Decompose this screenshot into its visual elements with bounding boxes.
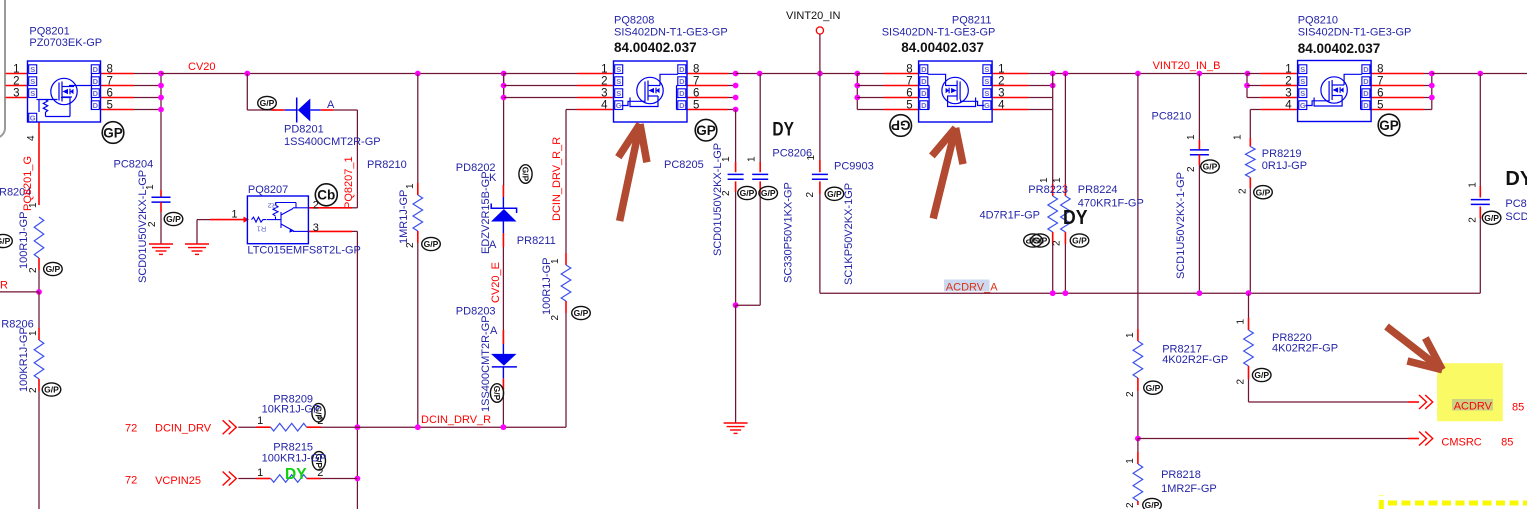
svg-text:4: 4: [26, 135, 37, 141]
svg-text:2: 2: [405, 242, 416, 248]
svg-text:D: D: [93, 89, 99, 98]
svg-text:3: 3: [13, 88, 19, 100]
svg-text:G/P: G/P: [1072, 236, 1087, 246]
svg-text:SC1KP50V2KX-1GP: SC1KP50V2KX-1GP: [843, 183, 855, 285]
svg-text:DCIN_DRV_R_R: DCIN_DRV_R_R: [551, 137, 563, 221]
svg-text:G/P: G/P: [574, 308, 589, 318]
svg-text:PC8: PC8: [1505, 198, 1526, 210]
svg-text:D: D: [93, 101, 99, 110]
svg-text:84.00402.037: 84.00402.037: [1298, 41, 1381, 56]
svg-text:84.00402.037: 84.00402.037: [901, 40, 984, 55]
svg-text:DCIN_DRV_R: DCIN_DRV_R: [421, 414, 491, 426]
svg-text:1: 1: [1039, 177, 1050, 183]
svg-text:1: 1: [257, 467, 263, 479]
svg-text:4K02R2F-GP: 4K02R2F-GP: [1162, 354, 1228, 366]
svg-text:DY: DY: [1505, 168, 1527, 190]
svg-text:0R1J-GP: 0R1J-GP: [1262, 160, 1307, 172]
svg-text:PR8218: PR8218: [1161, 469, 1201, 481]
svg-text:DY: DY: [772, 119, 794, 141]
svg-text:S: S: [1300, 65, 1305, 74]
svg-text:85: 85: [1512, 401, 1524, 413]
svg-text:2: 2: [1125, 502, 1136, 508]
svg-text:D: D: [1363, 101, 1369, 110]
svg-text:G/P: G/P: [1203, 162, 1218, 172]
svg-text:GP: GP: [696, 123, 716, 138]
svg-text:G/P: G/P: [424, 239, 439, 249]
svg-text:5: 5: [906, 100, 912, 112]
svg-text:G/P: G/P: [1025, 235, 1040, 245]
svg-text:G/P: G/P: [1484, 213, 1499, 223]
svg-text:D: D: [1363, 89, 1369, 98]
svg-text:7: 7: [906, 76, 912, 88]
svg-text:2: 2: [317, 415, 323, 427]
svg-text:S: S: [30, 77, 35, 86]
svg-text:PC8205: PC8205: [664, 159, 704, 171]
svg-text:2: 2: [805, 192, 816, 198]
svg-text:D: D: [93, 77, 99, 86]
svg-text:D: D: [679, 89, 685, 98]
svg-text:2: 2: [313, 199, 319, 211]
svg-text:G/P: G/P: [1254, 370, 1269, 380]
svg-text:4: 4: [998, 100, 1005, 112]
svg-text:SC330P50V1KX-GP: SC330P50V1KX-GP: [783, 182, 795, 283]
svg-text:1: 1: [1052, 177, 1063, 183]
svg-text:1: 1: [405, 183, 416, 189]
svg-text:PR8219: PR8219: [1262, 148, 1302, 160]
svg-text:G: G: [1300, 101, 1306, 110]
svg-text:EDZV2R15B-GP: EDZV2R15B-GP: [480, 171, 492, 254]
svg-text:8: 8: [693, 64, 699, 76]
svg-text:2: 2: [1236, 379, 1247, 385]
svg-text:S: S: [616, 65, 621, 74]
svg-text:PQ8211: PQ8211: [952, 15, 992, 27]
svg-text:1: 1: [1125, 458, 1136, 464]
svg-text:3: 3: [998, 88, 1004, 100]
svg-text:G/P: G/P: [166, 214, 181, 224]
svg-text:CV20_E: CV20_E: [490, 262, 502, 303]
svg-text:ACDRV_A: ACDRV_A: [946, 281, 998, 293]
svg-text:D: D: [921, 77, 927, 86]
svg-text:5: 5: [1377, 100, 1383, 112]
svg-text:PC8210: PC8210: [1152, 110, 1192, 122]
svg-text:R: R: [0, 280, 8, 292]
svg-text:1: 1: [601, 64, 607, 76]
svg-text:5: 5: [107, 100, 113, 112]
svg-text:GP: GP: [1379, 118, 1399, 133]
svg-text:1: 1: [28, 330, 39, 336]
svg-text:1SS400CMT2R-GP: 1SS400CMT2R-GP: [284, 136, 381, 148]
svg-text:4: 4: [601, 100, 608, 112]
svg-text:2: 2: [998, 76, 1004, 88]
svg-text:GP: GP: [103, 125, 123, 140]
svg-text:1: 1: [13, 64, 19, 76]
svg-text:G/P: G/P: [44, 385, 59, 395]
svg-text:S: S: [984, 89, 989, 98]
svg-text:1: 1: [1233, 134, 1244, 140]
svg-text:G/P: G/P: [0, 236, 11, 246]
svg-text:S: S: [616, 77, 621, 86]
svg-text:R2: R2: [268, 201, 278, 210]
svg-text:1SS400CMT2R-GP: 1SS400CMT2R-GP: [480, 315, 492, 412]
svg-text:D: D: [679, 77, 685, 86]
svg-text:PR8211: PR8211: [517, 235, 556, 247]
svg-text:PR8223: PR8223: [1028, 184, 1068, 196]
svg-text:D: D: [921, 65, 927, 74]
svg-text:G/P: G/P: [740, 188, 755, 198]
svg-text:PQ8208: PQ8208: [614, 15, 654, 27]
svg-text:72: 72: [125, 423, 137, 435]
svg-text:3: 3: [1285, 88, 1291, 100]
svg-text:2: 2: [721, 190, 732, 196]
svg-text:1: 1: [721, 156, 732, 162]
svg-text:2: 2: [147, 221, 158, 227]
svg-text:PC8204: PC8204: [114, 158, 154, 170]
svg-text:G/P: G/P: [46, 264, 61, 274]
svg-text:7: 7: [1377, 76, 1383, 88]
svg-text:2: 2: [28, 267, 39, 273]
svg-text:2: 2: [13, 76, 19, 88]
svg-text:1: 1: [257, 415, 263, 427]
svg-text:8: 8: [1377, 64, 1383, 76]
svg-text:1: 1: [550, 258, 561, 264]
svg-text:2: 2: [1125, 391, 1136, 397]
svg-text:1: 1: [1285, 64, 1291, 76]
svg-text:S: S: [30, 89, 35, 98]
svg-text:S: S: [616, 89, 621, 98]
svg-text:6: 6: [107, 88, 113, 100]
svg-text:2: 2: [1468, 217, 1479, 223]
svg-text:5: 5: [693, 100, 699, 112]
svg-text:4K02R2F-GP: 4K02R2F-GP: [1272, 342, 1338, 354]
svg-text:DCIN_DRV: DCIN_DRV: [155, 423, 212, 435]
svg-text:2: 2: [550, 315, 561, 321]
svg-text:470KR1F-GP: 470KR1F-GP: [1078, 197, 1144, 209]
svg-text:1MR1J-GP: 1MR1J-GP: [398, 190, 410, 244]
svg-text:2: 2: [1238, 188, 1249, 194]
svg-text:2: 2: [601, 76, 607, 88]
svg-text:G/P: G/P: [520, 167, 530, 182]
svg-text:S: S: [984, 65, 989, 74]
svg-text:1: 1: [28, 202, 39, 208]
svg-text:6: 6: [1377, 88, 1383, 100]
svg-text:D: D: [93, 65, 99, 74]
svg-text:DY: DY: [285, 466, 307, 483]
svg-text:DY: DY: [1063, 207, 1088, 229]
svg-text:4: 4: [1285, 100, 1292, 112]
svg-text:Cb: Cb: [317, 188, 335, 203]
svg-text:PZ0703EK-GP: PZ0703EK-GP: [29, 37, 102, 49]
svg-text:1MR2F-GP: 1MR2F-GP: [1161, 483, 1217, 495]
svg-text:84.00402.037: 84.00402.037: [614, 40, 697, 55]
svg-text:PQ8207: PQ8207: [248, 184, 288, 196]
svg-text:SIS402DN-T1-GE3-GP: SIS402DN-T1-GE3-GP: [614, 26, 728, 38]
svg-text:1: 1: [1125, 332, 1136, 338]
svg-text:72: 72: [125, 475, 137, 487]
svg-text:VCPIN25: VCPIN25: [155, 475, 201, 487]
svg-text:1: 1: [145, 184, 156, 190]
svg-text:1: 1: [231, 209, 237, 221]
svg-text:7: 7: [693, 76, 699, 88]
svg-text:S: S: [984, 77, 989, 86]
svg-text:VINT20_IN: VINT20_IN: [786, 10, 840, 22]
svg-text:D: D: [679, 65, 685, 74]
svg-text:SCD: SCD: [1505, 211, 1527, 223]
svg-text:S: S: [30, 65, 35, 74]
svg-text:6: 6: [906, 88, 912, 100]
svg-text:1: 1: [998, 64, 1004, 76]
svg-text:2: 2: [1285, 76, 1291, 88]
svg-text:2: 2: [1186, 166, 1197, 172]
svg-text:10KR1J-GP: 10KR1J-GP: [262, 404, 321, 416]
svg-text:8: 8: [906, 64, 912, 76]
svg-text:100R1J-GP: 100R1J-GP: [18, 212, 30, 269]
svg-text:LTC015EMFS8T2L-GP: LTC015EMFS8T2L-GP: [247, 245, 361, 257]
svg-text:PQ8210: PQ8210: [1298, 15, 1338, 27]
svg-text:GP: GP: [891, 118, 911, 133]
svg-text:VINT20_IN_B: VINT20_IN_B: [1153, 60, 1221, 72]
svg-text:G/P: G/P: [1256, 187, 1271, 197]
svg-text:G: G: [30, 113, 36, 122]
svg-text:D: D: [1363, 65, 1369, 74]
svg-text:PC9903: PC9903: [834, 161, 874, 173]
svg-text:4D7R1F-GP: 4D7R1F-GP: [980, 210, 1041, 222]
svg-text:PR8224: PR8224: [1078, 184, 1118, 196]
svg-text:SIS402DN-T1-GE3-GP: SIS402DN-T1-GE3-GP: [882, 26, 996, 38]
svg-text:R1: R1: [257, 224, 267, 233]
svg-text:1: 1: [747, 156, 758, 162]
svg-text:1: 1: [1468, 182, 1479, 188]
svg-text:ACDRV: ACDRV: [1454, 401, 1493, 413]
svg-text:85: 85: [1501, 437, 1513, 449]
svg-text:PD8201: PD8201: [284, 123, 324, 135]
svg-text:3: 3: [601, 88, 607, 100]
svg-text:D: D: [921, 89, 927, 98]
svg-text:G: G: [984, 101, 990, 110]
svg-text:SIS402DN-T1-GE3-GP: SIS402DN-T1-GE3-GP: [1298, 26, 1412, 38]
svg-text:G/P: G/P: [492, 386, 502, 401]
svg-text:1: 1: [806, 155, 817, 161]
svg-text:G/P: G/P: [1146, 383, 1161, 393]
svg-text:G: G: [616, 101, 622, 110]
svg-text:D: D: [679, 101, 685, 110]
svg-text:7: 7: [107, 76, 113, 88]
svg-text:6: 6: [693, 88, 699, 100]
svg-text:S: S: [1300, 89, 1305, 98]
svg-text:3: 3: [313, 222, 319, 234]
svg-text:SCD1U50V2KX-1-GP: SCD1U50V2KX-1-GP: [1175, 172, 1187, 279]
svg-text:PR8210: PR8210: [367, 159, 407, 171]
svg-text:2: 2: [317, 467, 323, 479]
svg-text:G/P: G/P: [1145, 500, 1160, 509]
svg-text:D: D: [1363, 77, 1369, 86]
svg-text:CV20: CV20: [188, 61, 216, 73]
svg-text:PQ8207_1: PQ8207_1: [343, 156, 355, 209]
svg-text:PQ8201: PQ8201: [29, 26, 69, 38]
svg-text:1: 1: [1186, 134, 1197, 140]
svg-text:2: 2: [28, 387, 39, 393]
svg-text:G/P: G/P: [827, 189, 842, 199]
svg-text:2: 2: [1052, 240, 1063, 246]
svg-text:D: D: [921, 101, 927, 110]
svg-text:CMSRC: CMSRC: [1441, 437, 1481, 449]
svg-text:8: 8: [107, 64, 113, 76]
svg-text:A: A: [327, 99, 335, 111]
svg-text:100R1J-GP: 100R1J-GP: [541, 258, 553, 315]
svg-text:S: S: [1300, 77, 1305, 86]
svg-text:1: 1: [1236, 319, 1247, 325]
svg-text:G/P: G/P: [260, 98, 275, 108]
svg-text:100KR1J-GP: 100KR1J-GP: [262, 453, 327, 465]
svg-text:G/P: G/P: [761, 188, 776, 198]
